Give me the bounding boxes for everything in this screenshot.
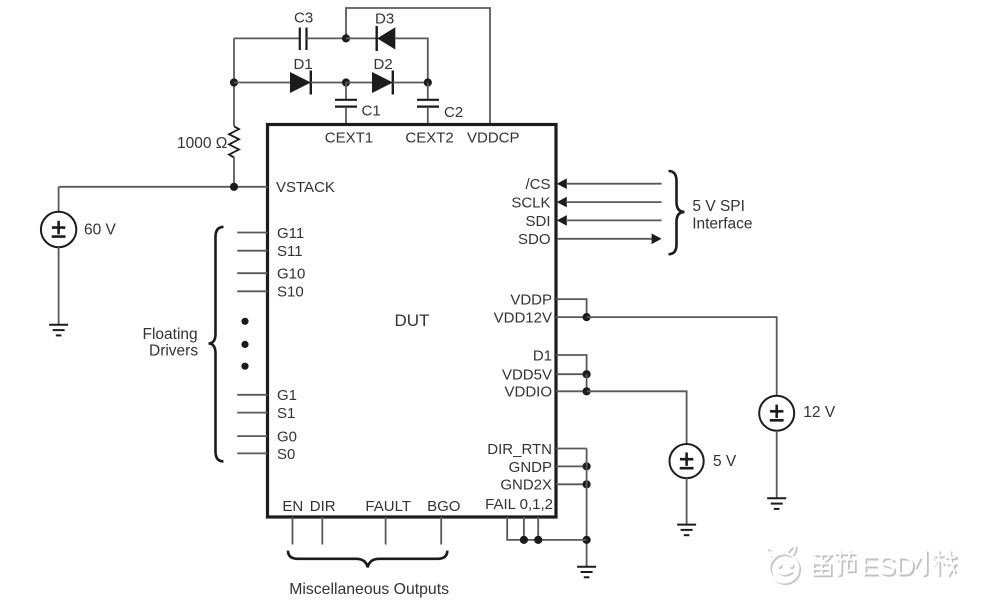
pin SDI with arrow into DUT — [557, 215, 662, 226]
番 white overlay — [812, 551, 831, 575]
小 — [917, 552, 939, 576]
svg-text:Interface: Interface — [692, 215, 752, 232]
wire: 5V bottom lead — [686, 478, 688, 524]
svg-text:S1: S1 — [277, 405, 295, 422]
svg-text:Floating: Floating — [143, 326, 198, 343]
wire: D1 anode lead — [234, 82, 291, 84]
voltage source 12V — [759, 396, 794, 431]
svg-text:G10: G10 — [277, 266, 305, 283]
svg-text:VSTACK: VSTACK — [276, 179, 335, 196]
svg-text:S10: S10 — [277, 284, 304, 301]
wire: right gnd vertical — [586, 449, 588, 567]
wire: FAIL2 stub — [537, 517, 539, 540]
diode D2 (pointing right) — [373, 71, 393, 95]
svg-text:G11: G11 — [277, 225, 304, 242]
pin stub S1 — [237, 412, 267, 414]
svg-text:G0: G0 — [277, 429, 297, 446]
svg-text:D2: D2 — [374, 56, 393, 73]
node: GND2X junction — [583, 480, 591, 488]
wire: VDD5V to VDDIO — [586, 374, 588, 391]
svg-text:SDI: SDI — [525, 213, 550, 230]
svg-text:BGO: BGO — [427, 498, 460, 515]
node: VDDIO junction — [583, 387, 591, 395]
svg-text:S0: S0 — [277, 446, 295, 463]
pin VDDP — [556, 299, 587, 317]
svg-text:1000 Ω: 1000 Ω — [177, 135, 227, 152]
pin /CS with arrow into DUT — [557, 178, 662, 189]
pin EN — [292, 517, 294, 545]
watermark text 番茄ESD小栈 — [812, 551, 957, 577]
svg-text:VDDIO: VDDIO — [504, 384, 552, 401]
svg-text:5 V SPI: 5 V SPI — [692, 198, 745, 215]
茄 white overlay — [835, 551, 854, 575]
栈 — [936, 552, 958, 576]
svg-text:Drivers: Drivers — [149, 343, 198, 360]
svg-text:D1: D1 — [294, 56, 313, 73]
svg-text:ESD: ESD — [861, 551, 914, 581]
node: D1/D2/C1 junction — [342, 78, 350, 86]
wire: 60V bottom lead — [58, 247, 60, 324]
wire: VSTACK rail from 60V source — [59, 186, 268, 188]
svg-text:FAULT: FAULT — [365, 498, 411, 515]
svg-text:DIR: DIR — [310, 498, 336, 515]
svg-text:D3: D3 — [375, 11, 394, 28]
svg-text:Miscellaneous Outputs: Miscellaneous Outputs — [289, 581, 449, 598]
wire: VDDIO to 5V source — [587, 391, 687, 444]
svg-text:GND2X: GND2X — [500, 477, 552, 494]
wire: C2 bottom lead to CEXT2 — [427, 107, 429, 123]
svg-text:C3: C3 — [294, 10, 313, 27]
wire: 60V top lead — [58, 187, 60, 212]
wire: D3 anode lead — [346, 37, 376, 39]
svg-text:DUT: DUT — [395, 311, 430, 330]
wire: left vertical from C3 down to resistor — [233, 38, 235, 126]
pin FAULT — [385, 517, 387, 545]
voltage source 5V — [670, 444, 704, 478]
ellipsis dots between S10 and G1 — [241, 318, 248, 370]
node: D2/C2/D3 junction — [424, 78, 432, 86]
svg-text:VDDP: VDDP — [510, 292, 552, 309]
pin stub G1 — [237, 394, 267, 396]
ground (60V) — [49, 325, 68, 336]
node: GNDP junction — [583, 462, 591, 470]
pin DIR_RTN — [556, 448, 587, 450]
wire: C1 top lead — [345, 83, 347, 100]
ground (12V) — [767, 498, 786, 509]
brace for SPI interface — [669, 171, 685, 254]
pin VDDIO — [556, 390, 587, 392]
pin VDD12V — [556, 316, 587, 318]
svg-text:CEXT1: CEXT1 — [325, 130, 373, 147]
pin stub S0 — [237, 452, 267, 454]
wire: 12V bottom lead — [776, 431, 778, 498]
wire: resistor bottom to VSTACK rail — [233, 157, 235, 186]
svg-text:5 V: 5 V — [713, 453, 737, 470]
svg-text:D1: D1 — [533, 347, 552, 364]
wire: FAIL0 stub — [507, 517, 586, 540]
diode D1 (pointing right) — [291, 71, 311, 95]
ground (logic) — [577, 567, 596, 578]
茄 — [837, 552, 856, 576]
svg-text:C2: C2 — [444, 104, 463, 121]
wire: VDD12V to 12V source — [587, 317, 777, 396]
pin stub G0 — [237, 435, 267, 437]
diode D3 (pointing left) — [377, 26, 395, 51]
pin BGO — [440, 517, 442, 545]
capacitor C2 — [417, 100, 439, 107]
DUT IC body U1 — [268, 125, 557, 518]
svg-text:VDD12V: VDD12V — [494, 310, 552, 327]
capacitor C1 — [335, 100, 357, 107]
node: VSTACK junction — [230, 183, 238, 191]
svg-text:GNDP: GNDP — [509, 459, 552, 476]
voltage source V1 60V — [41, 212, 76, 247]
svg-text:12 V: 12 V — [803, 404, 836, 421]
node: VDD12V junction — [583, 313, 591, 321]
wire: D2 anode lead — [346, 82, 373, 84]
brace for floating drivers — [209, 227, 224, 462]
wire: D2 cathode to C2 node — [393, 82, 428, 84]
svg-text:VDDCP: VDDCP — [467, 130, 520, 147]
brace for miscellaneous outputs — [288, 551, 447, 568]
pin SCLK with arrow into DUT — [557, 197, 662, 208]
wire: C3 left lead — [234, 37, 300, 39]
pin stub G10 — [237, 272, 267, 274]
node: FAIL2 junction — [534, 536, 542, 544]
node: C3/D3/top junction — [342, 34, 350, 42]
svg-text:EN: EN — [282, 498, 303, 515]
node: D1 anode junction — [230, 78, 238, 86]
番 — [814, 552, 833, 576]
node: FAIL1 junction — [520, 536, 528, 544]
wire: top loop from C3/D3 node up and over to VDDCP — [346, 8, 490, 123]
pin D1 — [556, 355, 587, 374]
pin VDD5V — [556, 373, 587, 375]
wire: D3 cathode lead to right drop — [395, 38, 428, 82]
watermark logo (tomato) — [766, 546, 800, 584]
svg-text:SCLK: SCLK — [511, 195, 550, 212]
svg-text:FAIL 0,1,2: FAIL 0,1,2 — [485, 496, 553, 513]
svg-text:C1: C1 — [362, 103, 381, 120]
svg-text:CEXT2: CEXT2 — [405, 130, 453, 147]
svg-text:SDO: SDO — [518, 231, 551, 248]
wire: C1 bottom lead to CEXT1 — [345, 107, 347, 123]
pin stub S11 — [237, 250, 267, 252]
svg-text:G1: G1 — [277, 387, 297, 404]
栈 white overlay — [934, 551, 956, 575]
svg-text:S11: S11 — [277, 243, 303, 260]
pin stub G11 — [237, 232, 267, 234]
svg-text:DIR_RTN: DIR_RTN — [487, 441, 552, 458]
pin DIR — [321, 517, 323, 545]
wire: C3 right lead — [307, 37, 347, 39]
watermark ESD letters — [861, 551, 916, 583]
pin GND2X — [556, 483, 587, 485]
ground (5V) — [677, 525, 696, 536]
capacitor C3 — [300, 28, 307, 51]
pin stub S10 — [237, 290, 267, 292]
wire: C2 top lead — [427, 83, 429, 100]
svg-text:60 V: 60 V — [84, 221, 117, 238]
node: FAIL bus meets gnd vertical — [583, 536, 591, 544]
svg-text:/CS: /CS — [525, 176, 550, 193]
svg-text:VDD5V: VDD5V — [502, 367, 552, 384]
node: VDD5V junction — [583, 370, 591, 378]
pin GNDP — [556, 465, 587, 467]
wire: D1 cathode to C1 node — [311, 82, 346, 84]
pin SDO with arrow out of DUT — [557, 234, 662, 245]
wire: FAIL1 stub — [523, 517, 525, 540]
小 white overlay — [915, 551, 937, 575]
resistor R 1000 ohm — [229, 126, 239, 157]
